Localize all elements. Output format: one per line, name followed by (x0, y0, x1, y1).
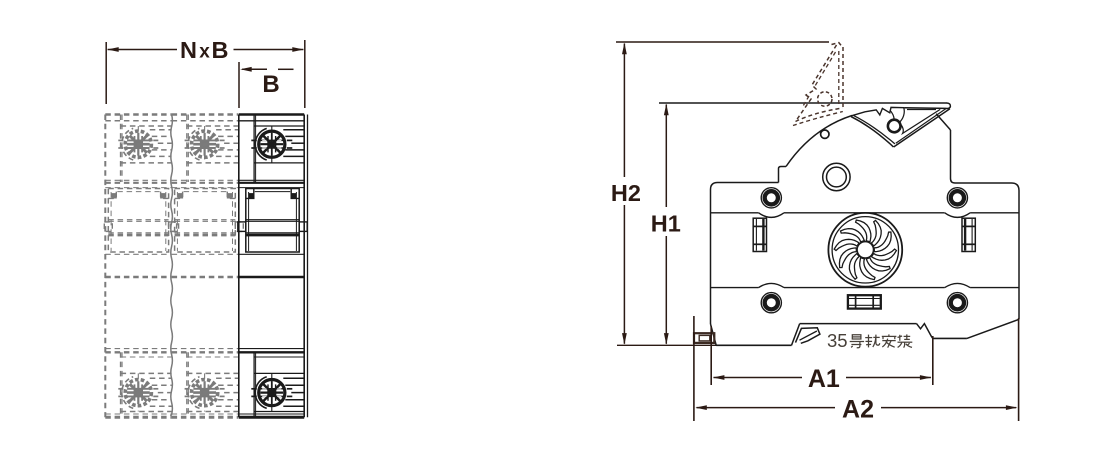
dashed module 2 left wall line 2 (187, 115, 189, 183)
dimension A2 arrows (695, 405, 707, 410)
solid module terminal block top (254, 125, 304, 127)
body top edge right (955, 183, 1019, 191)
dashed module 2 carrier section top (172, 187, 239, 189)
dashed module 2 terminal block top (187, 125, 238, 127)
dimension B line right segment (278, 68, 294, 70)
dashed module 2 ridge line 5 (216, 155, 238, 157)
dashed module 2 terminal block bottom (187, 162, 238, 164)
solid module carrier thick line (246, 234, 299, 237)
dimension B arrow (240, 67, 252, 72)
solid module fuse carrier outline (246, 189, 299, 253)
dashed module 1 screw centerline (137, 126, 139, 163)
dashed module 1 ridge line 3 (158, 142, 172, 144)
body bottom-right diagonal (967, 319, 1019, 338)
solid module top inner line (239, 120, 304, 122)
front view solid module left edge (238, 115, 240, 418)
solid module bottom line (239, 413, 304, 415)
solid module body split thick line (239, 276, 304, 279)
lever pivot pin (821, 130, 829, 138)
dimension A1 arrows (713, 375, 725, 380)
dashed module 1 cover bottom thick (105, 182, 171, 184)
dimension H2 line upper (623, 44, 625, 178)
dashed lever left edge (796, 45, 837, 122)
svg-text:A2: A2 (842, 395, 874, 423)
body bottom edge left (716, 344, 791, 346)
dimension NxB line left segment (108, 49, 177, 51)
dashed lever inner edge (803, 52, 836, 107)
solid module carrier line 2 (246, 220, 299, 222)
solid module lower ridge 1 (283, 377, 304, 379)
dashed module 1 carrier tab mark right (161, 194, 165, 198)
dashed module 2 carrier tab right (227, 189, 235, 199)
fan rotary carrier (828, 213, 902, 287)
solid module lower terminal bottom (254, 411, 304, 413)
solid module cover bottom thick (239, 182, 304, 184)
solid module carrier tab mark left (249, 194, 253, 198)
dashed module 1 carrier tab mark left (112, 194, 116, 198)
dashed module 1 terminal block bottom (121, 162, 172, 164)
label window horizontals (849, 298, 880, 300)
dimension A1 left extension (710, 326, 712, 385)
dashed module 1 fuse carrier outline (108, 189, 168, 253)
solid module lower ridge 5 (283, 405, 304, 407)
rivet top-left (761, 188, 781, 208)
dashed module 1 lower screw centerline (137, 373, 139, 411)
label window verticals (855, 296, 857, 308)
dashed module 2 lower block top (187, 356, 238, 358)
solid module left wall line 2 (255, 115, 257, 183)
dashed module 2 cover bottom thick (172, 182, 239, 184)
dashed module 2 carrier thick line (175, 234, 236, 237)
svg-text:A1: A1 (808, 365, 840, 393)
dashed module 2 side tab right (235, 222, 243, 232)
dashed module 2 lower wall line 2 (187, 352, 189, 417)
dimension NxB line right segment (234, 49, 304, 51)
dashed module 1 lower terminal screw (118, 377, 159, 409)
body lower band line (711, 287, 759, 289)
side view top line and H1 extension (659, 102, 947, 104)
dimension H2 line lower (623, 205, 625, 344)
dashed module 1 bottom edge (105, 416, 171, 419)
dashed module 2 lower screw centerline (204, 373, 206, 411)
dashed module 1 carrier tab left (108, 189, 116, 199)
dimension H2 top extension line (616, 41, 829, 43)
solid module screw centerline (271, 126, 273, 163)
lever hole (888, 120, 901, 133)
lever top zigzag edge (851, 107, 904, 116)
solid module lower ridge 4 (285, 399, 304, 401)
dashed module 2 ridge line 3 (224, 142, 238, 144)
solid module terminal block bottom (254, 162, 304, 164)
dashed module 1 line below carrier (105, 253, 171, 255)
body top edge left (711, 183, 779, 190)
dashed module 1 carrier inner verticals (110, 192, 112, 251)
dashed module 2 lower ridge 2 (218, 384, 238, 386)
dashed module 1 ridge line 5 (150, 155, 172, 157)
din release clip outer (694, 333, 714, 343)
lever bottom outer arc (851, 117, 893, 147)
din notch left diagonal (792, 324, 800, 346)
dimension B extension line (238, 62, 240, 108)
dashed module 2 side tab left (171, 222, 179, 232)
solid module ridge line 2 (285, 135, 304, 137)
din notch top edge (800, 323, 917, 325)
dashed module 1 lower block top (121, 356, 172, 358)
dimension H1 arrows (664, 104, 669, 116)
solid module ridge line 1 (283, 129, 304, 131)
dashed module 2 lower cover thick (172, 351, 239, 353)
dimension A2 line right (881, 407, 1016, 409)
dashed module 1 lower terminal bottom (121, 411, 172, 413)
svg-text:H2: H2 (611, 180, 641, 206)
dashed module 1 body split thick line (105, 276, 171, 279)
front view dashed module 1 outline left edge (104, 115, 106, 418)
dashed module 1 ridge line 1 (150, 129, 172, 131)
label window outer (848, 295, 881, 308)
dashed module 2 cover bottom line (172, 179, 239, 181)
dimension NxB left extension line (105, 42, 107, 104)
dashed module 1 bottom line (105, 413, 171, 415)
solid module lower wall line 2 (255, 352, 257, 417)
dimension A2 right extension (1018, 318, 1020, 421)
dashed module 1 lower cover thick (105, 351, 171, 353)
dashed module 2 bottom line (172, 413, 239, 415)
dimension H2 arrows (622, 43, 627, 55)
front view solid module outer right line (307, 115, 309, 418)
dimension A1 line left (714, 377, 803, 379)
dashed module 1 lower ridge 2 (152, 384, 172, 386)
dashed module 2 carrier line 2 (175, 220, 236, 222)
dimension NxB left arrow (107, 47, 119, 52)
dashed module 1 carrier line 1 (108, 219, 168, 221)
solid module top edge (239, 113, 304, 116)
body top-right chamfer (936, 114, 950, 130)
dimension A1 line right (846, 377, 931, 379)
body front arc (786, 116, 852, 167)
solid module side tab right (299, 222, 307, 232)
front view module break line (171, 115, 173, 417)
solid module lower terminal screw (251, 377, 292, 409)
top hole outer circle (823, 163, 850, 190)
front view solid module right edge (303, 115, 305, 418)
dashed module 1 carrier rim line (117, 191, 159, 193)
dashed module 2 screw centerline (204, 126, 206, 163)
svg-text:H1: H1 (651, 211, 681, 237)
body bottom-left diagonal (711, 324, 717, 345)
dashed module 1 carrier line 2 (108, 220, 168, 222)
dashed lever inner vertical (838, 51, 840, 106)
dashed module 1 lower ridge 4 (152, 399, 172, 401)
solid module carrier line 1 (246, 219, 299, 221)
dashed module 1 side tab right (169, 222, 177, 232)
dashed module 2 lower ridge 1 (216, 377, 238, 379)
lever tip fold (904, 103, 950, 108)
dashed lever bottom curve 2 (793, 112, 843, 126)
dimension NxB right arrow (292, 47, 304, 52)
dashed module 1 terminal block top (121, 125, 172, 127)
dashed module 2 left wall line (186, 115, 188, 183)
dashed lever bottom curve (796, 108, 843, 122)
body bottom edge right (933, 337, 967, 339)
svg-text:x: x (199, 42, 210, 63)
solid module lower screw centerline (271, 373, 273, 411)
dashed module 2 carrier tab left (175, 189, 183, 199)
din release clip inner (699, 335, 710, 341)
dashed module 2 lower terminal bottom (187, 411, 238, 413)
dimension A1 right extension (932, 336, 934, 385)
dashed module 1 lower terminal top (121, 372, 172, 374)
dimension H1 line lower (665, 236, 667, 344)
lever bottom inner arc (853, 115, 895, 144)
dashed module 2 lower terminal top (187, 372, 238, 374)
solid module carrier tab right (291, 189, 299, 199)
svg-text:35: 35 (827, 330, 848, 351)
dimension ground extension line (617, 344, 791, 346)
body right edge (1018, 191, 1020, 320)
dashed module 1 ridge line 2 (152, 135, 172, 137)
dashed module 2 lower ridge 5 (216, 405, 238, 407)
dashed module 1 carrier thick line (108, 234, 168, 237)
dashed module 1 ridge line 4 (152, 149, 172, 151)
solid module carrier inner verticals (248, 192, 250, 251)
dashed module 2 carrier tab mark right (227, 194, 231, 198)
solid module carrier rim line (255, 191, 290, 193)
dashed module 1 lower wall line (120, 352, 122, 417)
dashed module 2 ridge line 2 (218, 135, 238, 137)
solid module carrier tab left (246, 189, 254, 199)
dashed module 1 lower ridge 1 (150, 377, 172, 379)
dimension A2 left extension (693, 316, 695, 421)
body left edge (710, 190, 712, 325)
dashed module 2 carrier line 3 (175, 232, 236, 234)
lever inner cutout (890, 108, 940, 134)
dashed module 2 top edge (172, 113, 239, 116)
dashed module 2 carrier inner verticals (176, 192, 178, 251)
rivet bottom-right (947, 293, 967, 313)
solid module lower cover thick (239, 351, 304, 353)
dashed module 1 carrier section top (105, 187, 171, 189)
dashed module 2 top inner line (172, 120, 239, 122)
lever right edge outer (894, 109, 950, 147)
body left step (779, 167, 787, 183)
solid module lower wall line (253, 352, 255, 417)
din rail hook inner line (800, 331, 817, 340)
solid module ridge line 4 (285, 149, 304, 151)
solid module bottom edge (239, 416, 304, 419)
top hole inner circle (827, 167, 847, 187)
svg-text:N: N (180, 37, 197, 63)
body narrow right edge (951, 130, 956, 183)
dashed module 1 carrier tab right (161, 189, 169, 199)
solid module carrier tab mark right (291, 194, 295, 198)
dashed module 1 lower cover line (105, 348, 171, 350)
dashed module 1 side tab left (104, 222, 112, 232)
solid module upper terminal screw (251, 128, 292, 160)
dashed module 2 lower ridge 3 (224, 392, 238, 394)
lever right edge inner (896, 108, 947, 143)
svg-text:B: B (262, 71, 279, 98)
rivet bottom-left (761, 293, 781, 313)
dashed module 2 carrier line 1 (175, 219, 236, 221)
dashed module 1 lower ridge 3 (158, 392, 172, 394)
dashed module 1 top edge (105, 113, 171, 116)
dashed module 1 left wall line 2 (121, 115, 123, 183)
din notch right zigzag (917, 324, 933, 339)
dimension B line left segment (242, 68, 267, 70)
solid module ridge line 3 (291, 142, 304, 144)
solid module line below carrier (239, 253, 304, 255)
dashed module 2 body split thick line (172, 276, 239, 279)
dashed module 1 upper terminal screw (118, 128, 159, 160)
svg-text:B: B (212, 37, 229, 63)
dashed module 1 top inner line (105, 120, 171, 122)
din rail hook (796, 328, 820, 344)
rivet top-right (947, 188, 967, 208)
dimension NxB right extension line (304, 40, 306, 108)
solid module lower terminal top (254, 372, 304, 374)
dashed module 1 lower ridge 5 (150, 405, 172, 407)
dashed module 2 lower ridge 4 (218, 399, 238, 401)
dashed module 2 carrier rim line (184, 191, 227, 193)
dashed module 1 lower wall line 2 (121, 352, 123, 417)
dimension A2 line left (697, 407, 836, 409)
solid module lower block top (254, 356, 304, 358)
solid module carrier line 3 (246, 232, 299, 234)
dashed lever right edge (842, 47, 844, 110)
left side slot (753, 218, 766, 251)
solid module lower ridge 2 (285, 384, 304, 386)
dashed module 2 ridge line 4 (218, 149, 238, 151)
dashed module 2 lower wall line (186, 352, 188, 417)
dashed module 2 line below carrier (172, 253, 239, 255)
body upper band line (711, 212, 759, 214)
solid module left wall line (253, 115, 255, 183)
solid module lower cover line (239, 348, 304, 350)
dashed module 2 bottom edge (172, 416, 239, 419)
solid module ridge line 5 (283, 155, 304, 157)
solid module side tab left (238, 222, 246, 232)
dimension H1 line upper (665, 105, 667, 208)
dashed module 2 lower cover line (172, 348, 239, 350)
dashed module 1 cover bottom line (105, 179, 171, 181)
dashed module 2 upper terminal screw (184, 128, 225, 160)
dashed module 1 left wall line (120, 115, 122, 183)
solid module lower ridge 3 (291, 392, 304, 394)
dashed lever apex (832, 43, 843, 48)
dashed module 2 carrier tab mark left (178, 194, 182, 198)
solid module cover bottom line (239, 179, 304, 181)
dashed module 1 carrier line 3 (108, 232, 168, 234)
dashed module 2 lower terminal screw (184, 377, 225, 409)
right side slot (962, 218, 975, 251)
dashed module 2 fuse carrier outline (175, 189, 236, 253)
dashed lever hole (818, 92, 832, 106)
dashed module 2 ridge line 1 (216, 129, 238, 131)
solid module carrier section top (239, 187, 304, 189)
